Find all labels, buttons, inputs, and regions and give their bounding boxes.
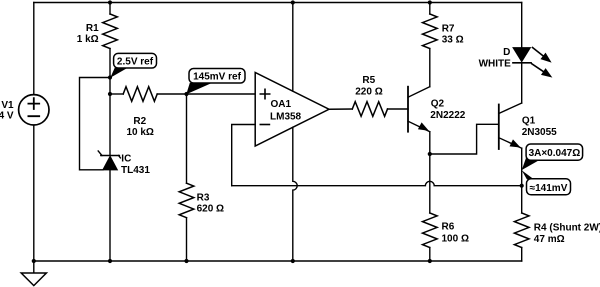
wire Q2 emitter down bbox=[429, 132, 431, 154]
wire R4 bottom bbox=[521, 248, 523, 262]
wire Q1 base jog bbox=[430, 124, 499, 154]
label Q2 2N2222 bbox=[430, 98, 465, 121]
callout 145mV ref bbox=[186, 69, 245, 95]
resistor R7 bbox=[423, 14, 438, 49]
svg-text:220 Ω: 220 Ω bbox=[355, 86, 382, 97]
node ground rail R6 bbox=[428, 259, 432, 263]
svg-text:IC: IC bbox=[121, 154, 131, 165]
svg-text:V1: V1 bbox=[1, 100, 14, 111]
resistor R4 shunt bbox=[514, 213, 529, 248]
svg-text:WHITE: WHITE bbox=[479, 59, 512, 70]
wire TL431 anode to bottom rail bbox=[109, 170, 111, 261]
wire R1 top bbox=[109, 3, 111, 15]
LED emission arrow 2 bbox=[532, 64, 551, 77]
svg-text:47 mΩ: 47 mΩ bbox=[534, 234, 565, 245]
wire R1 bottom to TL431 cathode bbox=[109, 49, 111, 155]
svg-text:Q1: Q1 bbox=[522, 116, 536, 127]
svg-text:R1: R1 bbox=[86, 23, 99, 34]
resistor R3 bbox=[179, 183, 194, 218]
svg-text:33 Ω: 33 Ω bbox=[442, 34, 464, 45]
callout 3A x 0.047 ohm bbox=[522, 144, 583, 170]
wire R6 bottom bbox=[429, 248, 431, 262]
node top rail R7 bbox=[428, 0, 432, 4]
svg-text:145mV ref: 145mV ref bbox=[193, 72, 241, 83]
transistor Q1 bbox=[499, 103, 522, 149]
wire left rail lower bbox=[33, 125, 35, 261]
label R2 value bbox=[126, 116, 153, 138]
svg-text:≈141mV: ≈141mV bbox=[530, 183, 568, 194]
svg-text:10 kΩ: 10 kΩ bbox=[126, 127, 153, 138]
svg-text:TL431: TL431 bbox=[121, 165, 150, 176]
svg-text:R4 (Shunt 2W): R4 (Shunt 2W) bbox=[534, 222, 600, 233]
wire op-amp output bbox=[329, 108, 352, 110]
node Q2 emitter junction bbox=[428, 152, 432, 156]
svg-text:LM358: LM358 bbox=[270, 112, 302, 123]
svg-text:2.5V ref: 2.5V ref bbox=[117, 57, 154, 68]
wire Q1 collector up to LED bbox=[521, 63, 523, 103]
wire feedback with hops bbox=[232, 181, 522, 185]
callout approx 141mV bbox=[522, 170, 571, 194]
op-amp OA1 bbox=[255, 73, 329, 147]
label R3 value bbox=[197, 193, 224, 215]
label R1 value bbox=[77, 23, 99, 45]
svg-text:R6: R6 bbox=[442, 222, 455, 233]
node 145mV ref bbox=[184, 92, 188, 96]
svg-text:D: D bbox=[503, 47, 510, 58]
resistor R2 bbox=[123, 87, 157, 102]
LED D bbox=[513, 48, 531, 63]
wire R2 right to op-amp plus input bbox=[157, 93, 255, 95]
transistor Q2 bbox=[408, 87, 430, 132]
wire R2 left bbox=[110, 93, 123, 95]
svg-text:2N3055: 2N3055 bbox=[522, 127, 557, 138]
wire op-amp V+ supply bbox=[292, 3, 294, 92]
label IC TL431 bbox=[121, 154, 150, 176]
svg-text:R5: R5 bbox=[362, 75, 375, 86]
wire left rail upper bbox=[33, 3, 35, 95]
node 2.5V ref bbox=[108, 75, 112, 79]
node ground rail TL431 bbox=[108, 259, 112, 263]
svg-text:OA1: OA1 bbox=[271, 99, 292, 110]
resistor R5 bbox=[352, 102, 387, 117]
label R4 value bbox=[534, 222, 600, 245]
callout 2.5V ref bbox=[110, 53, 156, 77]
svg-text:R2: R2 bbox=[133, 116, 146, 127]
node ground rail op-amp bbox=[291, 259, 295, 263]
svg-text:R7: R7 bbox=[442, 23, 455, 34]
node R2 left bbox=[108, 92, 112, 96]
wire LED top bbox=[521, 3, 523, 48]
voltage source V1 bbox=[19, 95, 49, 125]
node ground rail R3 bbox=[184, 259, 188, 263]
wire top rail bbox=[34, 2, 522, 4]
node top rail R1 bbox=[108, 0, 112, 4]
transistor IC TL431 bbox=[98, 151, 120, 170]
wire bottom rail bbox=[34, 260, 522, 262]
resistor R6 bbox=[423, 213, 438, 248]
label V1 value bbox=[0, 100, 14, 121]
svg-text:100 Ω: 100 Ω bbox=[442, 233, 469, 244]
node top rail op-amp supply bbox=[291, 0, 295, 4]
svg-text:1 kΩ: 1 kΩ bbox=[77, 34, 99, 45]
wire op-amp inverting input bbox=[232, 125, 256, 186]
label OA1 LM358 bbox=[270, 99, 302, 123]
ground bbox=[21, 261, 46, 286]
wire R5 to Q2 base bbox=[388, 108, 409, 110]
wire R7 top bbox=[429, 3, 431, 15]
svg-text:R3: R3 bbox=[197, 193, 210, 204]
wire TL431 ref feedback loop bbox=[80, 78, 111, 170]
svg-text:620 Ω: 620 Ω bbox=[197, 204, 224, 215]
label R7 value bbox=[442, 23, 464, 45]
svg-text:2N2222: 2N2222 bbox=[430, 110, 465, 121]
resistor R1 bbox=[103, 14, 118, 49]
wire R7 bottom to Q2 collector bbox=[429, 49, 431, 87]
node shunt top bbox=[520, 184, 524, 188]
wire op-amp V- supply with hop over feedback bbox=[293, 127, 297, 261]
label D WHITE bbox=[479, 47, 512, 69]
wire R6 top bbox=[429, 154, 431, 213]
svg-text:3A×0.047Ω: 3A×0.047Ω bbox=[529, 148, 581, 159]
wire R3 bottom bbox=[186, 218, 188, 261]
svg-text:4 V: 4 V bbox=[0, 111, 14, 122]
wire R3 top bbox=[186, 94, 188, 183]
label R5 value bbox=[355, 75, 382, 97]
label R6 value bbox=[442, 222, 469, 245]
node ground rail left bbox=[32, 259, 36, 263]
wire Q1 emitter down bbox=[521, 148, 523, 213]
svg-text:Q2: Q2 bbox=[431, 98, 445, 109]
LED emission arrow 1 bbox=[533, 48, 551, 62]
label Q1 2N3055 bbox=[522, 116, 557, 138]
